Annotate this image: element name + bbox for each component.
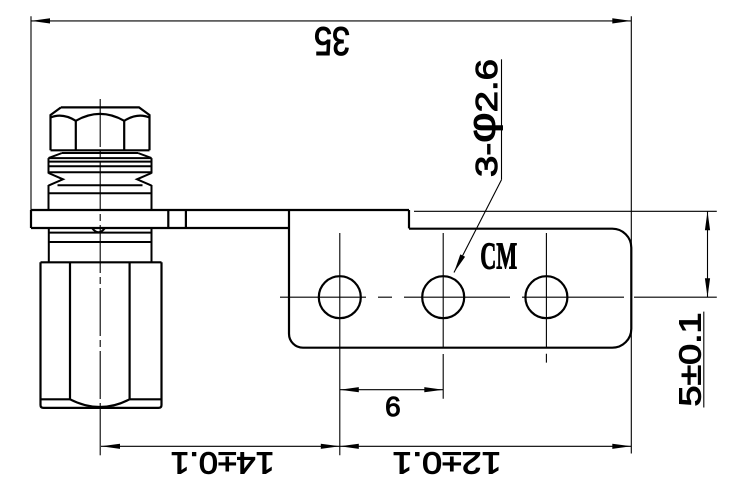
hole 1 (319, 276, 361, 318)
svg-text:9: 9 (385, 391, 401, 422)
hole horizontal centerline (280, 296, 717, 298)
extension line top right (for 5 dim) (414, 210, 717, 212)
svg-text:14±0.1: 14±0.1 (171, 446, 275, 481)
dimension 5±0.1: dimension line (707, 211, 709, 297)
svg-text:CM: CM (480, 236, 517, 278)
hole 3 (525, 276, 567, 318)
chain dimension line (101, 445, 631, 447)
weld ticks (168, 210, 186, 228)
bolt hex head (51, 107, 150, 150)
washer stack (49, 153, 152, 210)
leader 3-phi2.6: leader line (454, 180, 502, 273)
hole 1 vertical centerline (339, 233, 341, 455)
dimension 35: dimension line (31, 20, 631, 22)
dimple arc under plate (92, 228, 105, 232)
dimension 35: extension lines (31, 16, 631, 453)
dimension 35: arrowheads (31, 18, 50, 23)
plate strip edge view (31, 210, 409, 228)
hex body bottom (41, 262, 162, 408)
dimension 9: dimension line (340, 389, 444, 391)
dimension 5±0.1: underline (703, 312, 705, 408)
leader 3-phi2.6: underline (501, 59, 503, 179)
hole 2 (422, 276, 464, 318)
bolt centerline (99, 99, 101, 408)
hole 3 vertical centerline (545, 233, 547, 363)
svg-text:12±0.1: 12±0.1 (392, 446, 501, 481)
svg-text:35: 35 (314, 19, 350, 63)
washer below plate (49, 228, 152, 262)
tab plate with rounded corners (289, 210, 631, 347)
hole 2 vertical centerline (442, 233, 444, 399)
step at bend (408, 210, 410, 228)
svg-text:5±0.1: 5±0.1 (673, 313, 708, 407)
